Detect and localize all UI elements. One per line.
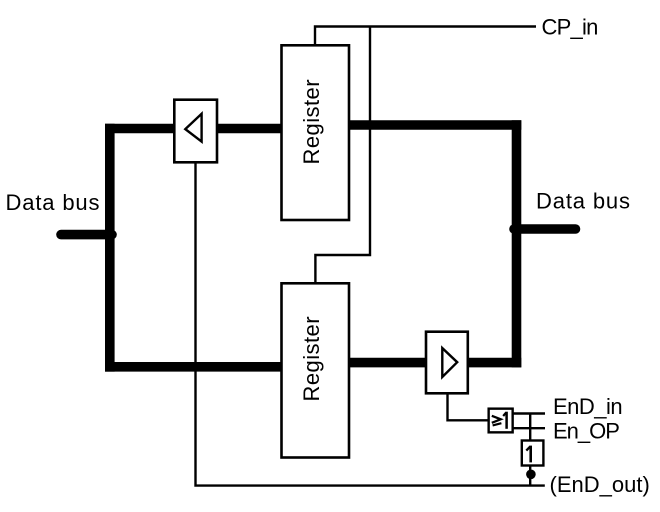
junction dot EnD_out [526, 470, 536, 480]
svg-text:Register: Register [299, 316, 324, 402]
wire CP_in branch to register 2 [315, 27, 370, 285]
OR gate U5 box [489, 409, 513, 433]
buffer U4 triangle [442, 348, 457, 377]
inverter U6 box [522, 441, 544, 466]
wire data-bus right stub [514, 224, 576, 234]
wire data-bus left vertical thick segment [105, 124, 115, 372]
svg-text:Data bus: Data bus [536, 189, 631, 214]
OR gate U5 label ">=1" [492, 412, 507, 429]
wire data-bus top-right thick segment [340, 120, 521, 130]
wire EnD_out net from left buffer [196, 162, 545, 486]
svg-text:EnD_in: EnD_in [553, 394, 622, 419]
register U2 box [282, 283, 350, 457]
buffer U3 triangle [185, 114, 201, 142]
svg-text:CP_in: CP_in [542, 15, 598, 40]
wire data-bus top-left thick segment [105, 124, 290, 134]
inverter U6 label "1" [526, 446, 530, 463]
wire inverter box to EnD_out line [529, 466, 531, 486]
wire data-bus right vertical thick segment [512, 120, 522, 367]
wire En_OP line [513, 427, 545, 429]
wire data-bus bottom-left thick segment [105, 362, 290, 372]
buffer U3 box (input buffer, left) [174, 100, 217, 163]
register U1 box [282, 45, 350, 220]
svg-text:Data bus: Data bus [6, 190, 101, 215]
svg-text:(EnD_out): (EnD_out) [550, 472, 650, 497]
wire CP_in net [315, 27, 536, 47]
wire data-bus left stub [61, 230, 112, 240]
wire vertical EnD_in to inverter box [529, 414, 531, 441]
svg-text:En_OP: En_OP [553, 418, 619, 443]
wire right buffer enable to OR gate [448, 393, 489, 420]
buffer U4 box (output buffer, right) [426, 332, 468, 394]
wire EnD_in line [513, 412, 545, 414]
svg-text:Register: Register [299, 79, 324, 165]
wire data-bus bottom-right thick segment [340, 358, 521, 368]
